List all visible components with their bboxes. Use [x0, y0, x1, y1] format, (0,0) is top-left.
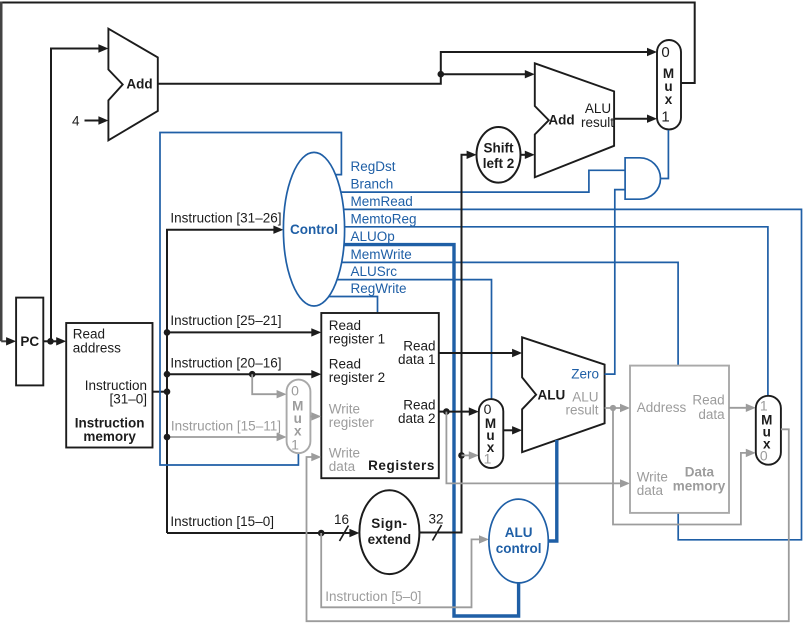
wire (thick blue): ALU control output to ALU	[548, 440, 557, 541]
svg-text:0: 0	[661, 44, 669, 61]
svg-text:RegDst: RegDst	[351, 159, 396, 174]
control signal RegWrite wire to Registers top	[329, 281, 407, 314]
svg-text:1: 1	[661, 109, 669, 126]
control signal ALUSrc wire to ALU mux top	[337, 264, 492, 400]
svg-text:Data: Data	[685, 465, 715, 480]
svg-text:Read: Read	[692, 393, 724, 408]
svg-text:data: data	[698, 407, 725, 422]
svg-text:32: 32	[428, 512, 443, 527]
svg-text:Shift: Shift	[484, 141, 514, 156]
wire (blue): ALU Zero output to AND gate input	[605, 190, 626, 375]
bus width slash 16	[334, 512, 349, 541]
svg-text:Branch: Branch	[351, 177, 394, 192]
wire: Read data 2 to ALUSrc mux 0 input	[439, 407, 479, 415]
oval sign extend	[359, 490, 419, 574]
wire (gray): Instruction [5-0] to ALU control	[321, 533, 489, 607]
svg-text:Instruction [5–0]: Instruction [5–0]	[325, 589, 421, 604]
svg-text:0: 0	[760, 448, 768, 464]
registers file block	[321, 313, 439, 478]
svg-text:Zero: Zero	[571, 367, 599, 382]
adder U3 Add (branch target)	[535, 63, 614, 177]
svg-text:4: 4	[72, 114, 80, 129]
svg-text:1: 1	[760, 398, 768, 414]
svg-text:Sign-: Sign-	[371, 516, 407, 531]
svg-text:data: data	[329, 459, 356, 474]
mux M2 RegDst (gray, write register select)	[287, 380, 311, 454]
svg-text:ALU: ALU	[538, 388, 566, 403]
svg-text:RegWrite: RegWrite	[351, 281, 407, 296]
control signal MemRead wire to data memory bottom	[344, 194, 802, 540]
svg-text:0: 0	[291, 383, 299, 399]
wire: Instruction [20-16] to Read register 2	[164, 356, 322, 379]
svg-text:Registers: Registers	[368, 458, 435, 473]
svg-text:control: control	[496, 541, 542, 556]
wire: branch adder output to mux 1 input	[614, 115, 657, 123]
wire (gray): ALU result to data memory address	[605, 404, 630, 412]
mux M4 MemtoReg (right)	[756, 396, 781, 465]
svg-text:0: 0	[484, 401, 492, 417]
svg-text:data 1: data 1	[398, 352, 436, 367]
svg-text:register 2: register 2	[329, 370, 385, 385]
svg-text:16: 16	[334, 512, 349, 527]
svg-text:x: x	[665, 92, 673, 107]
svg-text:ALUSrc: ALUSrc	[351, 264, 398, 279]
wire: instruction memory output to instruction bus	[153, 388, 171, 395]
constant 4 input to Add	[72, 114, 108, 129]
svg-text:Instruction [15–0]: Instruction [15–0]	[170, 514, 274, 529]
wire: PC+4 from Add output, branches to mux 0 input and branch adder	[158, 48, 657, 84]
svg-text:memory: memory	[83, 429, 136, 444]
svg-text:register 1: register 1	[329, 332, 385, 347]
wire: Instruction [25-21] to Read register 1	[164, 313, 322, 337]
svg-text:ALU: ALU	[585, 101, 611, 116]
register PC	[16, 298, 43, 386]
svg-text:extend: extend	[368, 532, 412, 547]
wire (gray): RegDst mux output to Write register port	[310, 412, 321, 420]
wire: instruction bus vertical with branch to Control	[167, 211, 283, 533]
mux M3 ALUSrc	[479, 399, 504, 468]
data memory block (gray)	[630, 366, 729, 513]
ALU U4	[522, 337, 605, 452]
control signal MemWrite wire to data memory top	[342, 247, 679, 366]
svg-text:Read: Read	[73, 327, 105, 342]
svg-text:Control: Control	[290, 222, 338, 237]
svg-text:MemtoReg: MemtoReg	[351, 212, 417, 227]
svg-text:data 2: data 2	[398, 411, 436, 426]
svg-text:Instruction [31–26]: Instruction [31–26]	[170, 211, 281, 226]
control unit U2 oval	[283, 152, 344, 306]
svg-text:PC: PC	[20, 334, 39, 349]
adder U1 Add (PC+4)	[108, 29, 157, 141]
mux M1 PCSrc (top right)	[657, 40, 681, 130]
control signal RegDst wire (wraps left to RegDst mux)	[160, 133, 396, 466]
svg-text:memory: memory	[673, 479, 726, 494]
wire: shift left 2 output to branch adder	[521, 151, 535, 159]
svg-text:address: address	[73, 341, 121, 356]
control signal Branch wire to AND gate	[341, 170, 625, 192]
control signal MemtoReg wire to right mux top	[345, 212, 768, 397]
bus width slash 32	[428, 512, 443, 541]
svg-text:Instruction [20–16]: Instruction [20–16]	[170, 356, 281, 371]
wire: sign-extend output up to shift left 2 input	[419, 151, 476, 533]
oval Shift left 2	[477, 127, 521, 183]
wire (gray): Instruction [15-11] to RegDst mux 1 input	[164, 419, 287, 442]
svg-text:Instruction [25–21]: Instruction [25–21]	[170, 313, 281, 328]
wire: Read data 1 to ALU top input	[439, 349, 522, 357]
wire: PCSrc mux output feedback around top frame	[1, 2, 695, 346]
svg-text:ALUOp: ALUOp	[351, 229, 395, 244]
AND gate (branch AND zero)	[625, 158, 660, 199]
wire: PC output to instruction memory read address	[43, 337, 66, 345]
wire (gray): Instruction [20-16] branch to RegDst mux 0 input	[252, 374, 286, 398]
svg-text:MemRead: MemRead	[351, 194, 413, 209]
svg-text:register: register	[329, 415, 375, 430]
svg-text:result: result	[565, 403, 598, 418]
wire (gray): Read data 2 branch to data memory write data	[446, 412, 630, 488]
wire (gray): ALU result bypass to right mux 0 input	[613, 408, 756, 525]
svg-text:1: 1	[484, 451, 492, 467]
svg-text:Add: Add	[548, 113, 574, 128]
svg-text:Add: Add	[126, 77, 152, 92]
wire (gray): write-back loop from right mux output to Registers write data	[307, 429, 789, 621]
svg-text:[31–0]: [31–0]	[109, 392, 147, 407]
svg-text:data: data	[637, 483, 664, 498]
svg-text:Address: Address	[637, 400, 687, 415]
oval ALU control	[489, 499, 548, 583]
wire: ALUSrc mux output to ALU bottom input	[503, 426, 522, 434]
svg-text:left 2: left 2	[483, 156, 515, 171]
wire: PC to Add (PC+4) top input	[51, 44, 108, 341]
control signal ALUOp thick wire to ALU control	[344, 229, 519, 616]
svg-text:MemWrite: MemWrite	[351, 247, 412, 262]
svg-text:Instruction [15–11]: Instruction [15–11]	[171, 419, 281, 434]
instruction memory	[66, 323, 152, 448]
wire (gray): sign-extend output branch to ALUSrc mux 1 input	[462, 451, 479, 459]
svg-text:result: result	[581, 115, 614, 130]
wire (blue): AND gate output to PCSrc mux select	[661, 130, 669, 179]
wire: Instruction [15-0] to sign extend	[167, 514, 359, 537]
svg-text:1: 1	[291, 437, 299, 453]
wire (gray): data memory read data to right mux 1 input	[729, 404, 756, 412]
svg-text:ALU: ALU	[505, 525, 533, 540]
